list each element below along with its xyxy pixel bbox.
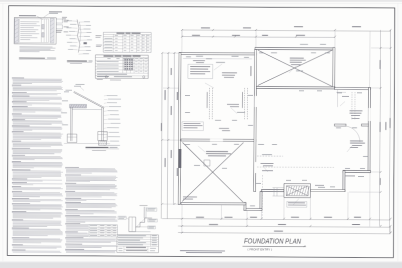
extension lines [181, 31, 183, 52]
dim texts bottom [196, 217, 204, 218]
dim line top 1 [182, 30, 390, 31]
dim texts left rotated [165, 90, 166, 100]
plan: left outer wall [178, 52, 181, 204]
plan: right-block top wall [334, 88, 370, 90]
plan: big room bottom wall [181, 203, 246, 205]
plan: bottom wall left of stoop [261, 190, 284, 192]
plan: dashed beam pockets top-left room [208, 88, 210, 120]
plan: scattered micro dimension texts [186, 56, 191, 59]
plan: dim row connector [181, 30, 183, 37]
plan: big room X diagonals [182, 143, 243, 203]
detail: typical wall section [73, 92, 104, 108]
detail: stepped footing [143, 207, 145, 218]
plan: dashed lines right block [351, 92, 353, 120]
plan: vestibule left wall [260, 191, 262, 210]
paper edge right [397, 3, 400, 262]
plan: right outer wall [368, 88, 370, 173]
dim texts top [201, 27, 210, 28]
detail title [19, 57, 45, 58]
plan: top-left block top wall [179, 52, 257, 54]
scanner bottom band [0, 262, 402, 268]
notes column 1 [12, 77, 24, 80]
plan: bottom wall right of stoop [310, 189, 345, 191]
plan: dashed ceiling lines [257, 155, 283, 157]
plan: right block interior wall [334, 124, 346, 126]
plan: garage slab X diagonals [258, 50, 332, 86]
plan labels: top-left room [183, 58, 252, 60]
dim ticks [181, 29, 183, 31]
stoop label box [287, 201, 307, 207]
porch beam hatch [69, 104, 86, 108]
plan: door swing arc [344, 126, 360, 142]
plan: SE step wall horizontal [343, 171, 371, 173]
table 2 dark stamp cluster [124, 59, 133, 70]
detail notes [19, 46, 52, 49]
plan labels: garage [290, 57, 304, 60]
plan: bottom wall segment B [244, 209, 262, 211]
plan labels: bottom room [206, 151, 228, 152]
footings [67, 134, 77, 143]
detail: post section stack [56, 19, 62, 23]
plan: step wall [244, 203, 246, 211]
footer stamp note [180, 250, 225, 251]
dim texts right rotated [380, 60, 381, 69]
dim lines bottom [162, 219, 390, 220]
plan: mid interior wall [181, 139, 256, 141]
stoop steps [273, 188, 275, 196]
paper edge left [2, 3, 5, 262]
plan label box bottom-left [182, 122, 204, 131]
plan: stoop hatched pad [284, 184, 311, 198]
plan: dashed pad bottom room [204, 160, 210, 166]
table: footing step schedule [117, 235, 159, 253]
plan: left wall pier hatch [179, 149, 182, 168]
dim lines right [379, 30, 380, 226]
table: electrical panel schedule [95, 55, 148, 79]
detail: footing connection diagram [77, 20, 80, 53]
notes column 2 [65, 166, 79, 169]
section leader labels [106, 94, 117, 97]
symbols under table 2 [105, 76, 107, 78]
table: footing schedule [103, 32, 151, 52]
plan labels: vestibule [260, 162, 273, 165]
detail title 2 [67, 60, 87, 61]
plan: interior vertical wall [254, 50, 257, 192]
plan: garage-left dim text [249, 66, 252, 76]
wall openings [210, 139, 223, 142]
dim line top 2 [182, 36, 335, 39]
dim lines left [160, 53, 163, 219]
scanner top band [0, 0, 402, 2]
section walls [70, 107, 72, 141]
svg-text:FOUNDATION PLAN: FOUNDATION PLAN [244, 238, 302, 245]
plan: SE step wall vertical [343, 171, 345, 192]
plan: garage top wall [255, 47, 335, 49]
notes column 2 mini table [89, 225, 118, 237]
svg-text:( FRONT ENTRY ): ( FRONT ENTRY ) [248, 247, 273, 251]
plan labels: right block [349, 109, 362, 112]
plan: garage bottom wall [255, 86, 335, 88]
detail: typical wall plan [19, 15, 36, 16]
plan: garage right wall [333, 47, 335, 88]
plan: leader arrows [214, 64, 222, 70]
section title [85, 147, 108, 148]
